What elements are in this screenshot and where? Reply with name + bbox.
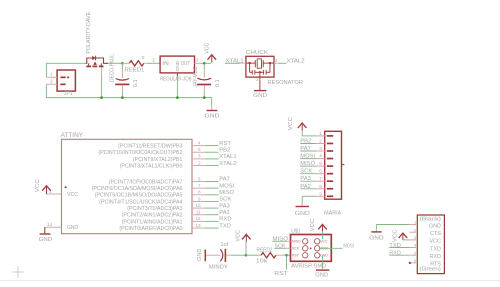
wire net MOSI (MARIA) [300, 158, 316, 160]
svg-text:6: 6 [414, 258, 417, 263]
pin ATTINY 10 (PA3) [192, 207, 205, 209]
svg-text:PB2: PB2 [300, 139, 311, 145]
svg-text:REED2: REED2 [257, 247, 273, 253]
svg-text:TXD: TXD [389, 243, 401, 249]
svg-text:VCC: VCC [310, 219, 316, 232]
svg-text:11: 11 [196, 210, 201, 215]
pin ATTINY 11 (PA2) [192, 214, 205, 216]
wire net MISO (MARIA) [300, 165, 316, 167]
wire net PB2 [205, 151, 219, 153]
svg-text:2: 2 [198, 160, 201, 165]
pin FTDI 2 (CTS) [409, 231, 417, 233]
pin AVRISP MISO [286, 240, 291, 242]
pin GND to MINDY [206, 254, 221, 256]
wire net SCK [205, 200, 219, 202]
canvas divider [0, 280, 500, 282]
svg-text:(PCINT3/T0/ADC3)PA3: (PCINT3/T0/ADC3)PA3 [127, 206, 182, 212]
wire VCC (FTDI) [403, 239, 409, 241]
svg-text:GND: GND [429, 223, 441, 229]
supply VCC (MARIA) [298, 123, 307, 128]
pin MARIA 2 [316, 143, 324, 145]
connector FTDI (Black/Green) [417, 215, 444, 274]
svg-text:AVRISP SMD: AVRISP SMD [291, 264, 326, 270]
svg-text:PA2: PA2 [300, 184, 311, 190]
wire junction to REED2 [246, 254, 259, 256]
wire XTAL1 (resonator) [225, 62, 240, 64]
pin AVRISP SCK [286, 247, 291, 249]
ground GND (MINDY, rotated) [204, 250, 206, 262]
svg-text:(Black): (Black) [419, 216, 441, 222]
svg-text:SCK: SCK [219, 197, 231, 203]
svg-text:VCC: VCC [236, 230, 242, 242]
ground GND (FTDI) [371, 231, 381, 233]
svg-text:XTAL2: XTAL2 [287, 58, 305, 64]
pin resonator 1 [240, 62, 246, 64]
pin ATTINY 1 (VCC) [46, 193, 62, 195]
svg-text:1: 1 [414, 220, 417, 225]
supply VCC (ATTINY) [42, 186, 51, 191]
pin FTDI 5 (RXD) [409, 254, 417, 256]
svg-text:TXD: TXD [430, 246, 441, 252]
pin JP1-1 [46, 76, 57, 78]
svg-text:JP1: JP1 [64, 91, 73, 97]
wire net PA7 [205, 181, 219, 183]
svg-text:RST: RST [219, 141, 231, 147]
svg-text:CTS: CTS [430, 231, 441, 237]
resistor REED1 [122, 62, 129, 64]
transistor POLARITY-DAVE (P-MOSFET) [86, 58, 109, 63]
svg-text:MOSI: MOSI [343, 244, 354, 250]
supply VCC (AVRISP) [318, 224, 327, 229]
wire VCC (AVRISP) [322, 231, 324, 239]
wire net PB2 (MARIA) [300, 143, 316, 145]
svg-text:MISO: MISO [292, 240, 301, 244]
svg-text:(PCINT8/XTAL1/CLKI)PB0: (PCINT8/XTAL1/CLKI)PB0 [120, 163, 183, 169]
regulator REGULAR-JOB U2 [160, 56, 194, 73]
svg-text:(PCINT4/T1/SCL/USCK/ADC4)PA4: (PCINT4/T1/SCL/USCK/ADC4)PA4 [99, 199, 182, 205]
wire net PA7 (MARIA) [300, 150, 316, 152]
svg-text:VCC: VCC [205, 43, 211, 54]
svg-text:4: 4 [414, 243, 417, 248]
wire RST to AVRISP [287, 254, 291, 256]
supply VCC (FTDI) [399, 233, 408, 238]
pin ATTINY 8 (MISO) [192, 194, 205, 196]
pin ATTINY 6 (PA7) [192, 181, 205, 183]
origin dot (ATTINY) [65, 186, 67, 188]
pin ATTINY 2 (XTAL2) [192, 165, 205, 167]
wire net RXD (FTDI) [389, 254, 409, 256]
supply VCC (regulator output) [208, 55, 217, 60]
svg-text:GND: GND [253, 93, 267, 99]
svg-text:2: 2 [414, 227, 417, 232]
ground GND (AVRISP) [316, 269, 329, 271]
pin FTDI 4 (TXD) [409, 247, 417, 249]
svg-text:7: 7 [319, 176, 322, 181]
svg-text:1uf: 1uf [220, 242, 228, 248]
svg-text:RXD: RXD [219, 217, 231, 223]
svg-text:3: 3 [198, 154, 201, 159]
svg-text:(PCINT6/OC1A/SDA/MOSI/ADC6)PA6: (PCINT6/OC1A/SDA/MOSI/ADC6)PA6 [92, 186, 183, 192]
ground GND (MARIA) [296, 206, 309, 208]
svg-text:2: 2 [319, 139, 322, 144]
pin FTDI 1 (GND) [409, 224, 417, 226]
svg-text:POLARITY-DAVE: POLARITY-DAVE [86, 11, 92, 53]
wire regulator OUT to VCC [200, 62, 211, 64]
resonator CHUCK [246, 56, 274, 77]
svg-text:4: 4 [198, 140, 201, 145]
pin resonator 3 [274, 62, 279, 64]
svg-text:13: 13 [195, 223, 201, 228]
capacitor DECO-PAUL [121, 62, 124, 65]
svg-text:9: 9 [198, 196, 201, 201]
pin MARIA 8 [316, 188, 324, 190]
svg-text:(PCINT11/RESET/DW)PB3: (PCINT11/RESET/DW)PB3 [118, 144, 182, 150]
svg-text:U$1: U$1 [291, 229, 301, 235]
svg-text:(PCINT2/AIN1/ADC2)PA2: (PCINT2/AIN1/ADC2)PA2 [122, 213, 183, 219]
svg-text:GND: GND [320, 254, 328, 258]
svg-text:GND: GND [197, 249, 203, 261]
wire XTAL2 (resonator) [279, 62, 287, 64]
svg-text:MINDY: MINDY [209, 265, 228, 271]
svg-text:GND: GND [67, 225, 78, 231]
svg-text:1: 1 [319, 131, 322, 136]
svg-text:JAY-VCC: JAY-VCC [193, 66, 199, 87]
svg-text:PA7: PA7 [219, 177, 230, 183]
wire REED1 to regulator IN [148, 62, 161, 64]
svg-text:2: 2 [256, 77, 259, 82]
ground GND (top circuit) [207, 110, 218, 112]
IC ATTINY [62, 139, 193, 233]
svg-text:GND: GND [175, 60, 181, 72]
svg-text:RST: RST [274, 271, 288, 277]
svg-text:VCC: VCC [67, 192, 78, 198]
svg-text:RXD: RXD [430, 254, 441, 260]
svg-text:7: 7 [198, 183, 201, 188]
wire RST drop [286, 255, 288, 270]
svg-text:VCC: VCC [35, 179, 41, 192]
svg-text:5: 5 [198, 147, 201, 152]
svg-text:14: 14 [47, 222, 53, 227]
svg-text:(PCINT0/AREF/ADC0)PA0: (PCINT0/AREF/ADC0)PA0 [119, 226, 182, 232]
svg-text:(PCINT1/AIN0/ADC1)PA1: (PCINT1/AIN0/ADC1)PA1 [122, 219, 183, 225]
svg-text:GND: GND [295, 211, 310, 217]
wire VCC (MARIA pin1) [301, 131, 303, 136]
svg-text:3: 3 [414, 235, 417, 240]
supply VCC (MINDY) [242, 234, 251, 239]
svg-text:9: 9 [319, 191, 322, 196]
svg-text:RXD: RXD [389, 251, 401, 257]
svg-text:12: 12 [195, 216, 201, 221]
header MARIA [325, 131, 342, 199]
svg-text:VCC: VCC [320, 240, 328, 244]
svg-text:DECO-PAUL: DECO-PAUL [110, 54, 116, 82]
wire GND bottom rail [46, 97, 212, 99]
svg-text:MISO: MISO [272, 237, 288, 243]
wire net XTAL1 [205, 158, 219, 160]
wire JP1 pin2 to GND rail [45, 84, 47, 98]
pin ATTINY 3 (XTAL1) [192, 158, 205, 160]
svg-text:0: 0 [142, 55, 145, 61]
svg-text:SCK: SCK [300, 169, 312, 175]
wire net MISO [205, 194, 219, 196]
svg-text:4: 4 [319, 154, 322, 159]
wire net PA3 (MARIA) [300, 180, 316, 182]
svg-text:XTAL2: XTAL2 [219, 161, 236, 167]
capacitor JAY-VCC [203, 62, 206, 65]
pin resonator GND [259, 72, 261, 90]
svg-text:MARIA: MARIA [324, 210, 341, 216]
svg-text:2: 2 [152, 57, 155, 62]
pin MARIA 6 [316, 173, 324, 175]
svg-text:GND: GND [205, 114, 220, 120]
pin ATTINY 4 (RST) [192, 145, 205, 147]
ground GND (resonator) [254, 90, 266, 92]
svg-text:RTS: RTS [430, 262, 441, 268]
pin JP1-2 [46, 83, 57, 85]
pin MARIA 7 [316, 180, 324, 182]
wire gate to GND rail [101, 67, 103, 76]
pin regulator GND [176, 73, 178, 77]
capacitor MINDY [220, 249, 222, 261]
junction regulator GND rail [176, 96, 179, 99]
svg-text:GND: GND [315, 273, 328, 279]
wire VIN top rail [46, 62, 85, 64]
svg-text:SCK: SCK [275, 244, 286, 250]
svg-text:MISO: MISO [300, 161, 315, 167]
wire GND (MARIA pin9) [302, 195, 316, 197]
svg-text:MOSI: MOSI [219, 183, 234, 189]
svg-text:0.1: 0.1 [133, 79, 139, 87]
svg-text:(PCINT5/OC1B/MISO/DO/ADC5)PA5: (PCINT5/OC1B/MISO/DO/ADC5)PA5 [95, 193, 183, 199]
ground GND (ATTINY) [44, 227, 46, 233]
wire net SCK (AVRISP) [275, 247, 286, 249]
svg-text:RESONATOR: RESONATOR [267, 80, 303, 86]
svg-text:8: 8 [198, 190, 201, 195]
svg-text:3: 3 [319, 146, 322, 151]
svg-text:6: 6 [319, 169, 322, 174]
svg-text:5: 5 [414, 250, 417, 255]
junction RST [285, 254, 288, 257]
junction gate/GND rail [100, 96, 103, 99]
wire JP1 pin1 riser [45, 63, 47, 78]
svg-text:10k: 10k [256, 259, 268, 265]
svg-text:0.1: 0.1 [215, 79, 221, 87]
wire net PA2 (MARIA) [300, 188, 316, 190]
pin ATTINY 9 (SCK) [192, 200, 205, 202]
svg-text:2: 2 [50, 79, 53, 84]
svg-text:PA7: PA7 [300, 146, 311, 152]
svg-text:6: 6 [198, 176, 201, 181]
pin ATTINY 13 (TXD) [192, 227, 205, 229]
pin MARIA 1 [316, 135, 324, 137]
svg-text:MOSI: MOSI [300, 154, 315, 160]
wire net TXD (FTDI) [389, 247, 409, 249]
header U$1 AVRISP-SMD [291, 235, 332, 262]
svg-text:XTAL1: XTAL1 [219, 154, 236, 160]
svg-text:TXD: TXD [219, 223, 231, 229]
wire net TXD [205, 227, 219, 229]
wire net MOSI (AVRISP) [319, 247, 343, 249]
wire net MOSI [205, 187, 219, 189]
pin FTDI 3 (VCC) [409, 239, 417, 241]
svg-text:10: 10 [195, 203, 201, 208]
resistor REED2 [259, 254, 262, 256]
pin MARIA 4 [316, 158, 324, 160]
svg-text:REED1: REED1 [124, 68, 144, 74]
wire net PA2 [205, 214, 219, 216]
svg-text:CHUCK: CHUCK [246, 50, 268, 56]
svg-text:8: 8 [319, 184, 322, 189]
origin cross [13, 271, 24, 273]
junction VCC (MINDY) [245, 254, 248, 257]
svg-text:(PCINT10/INT0/OC0A/CKOUT)PB2: (PCINT10/INT0/OC0A/CKOUT)PB2 [98, 150, 182, 156]
svg-text:GND: GND [369, 236, 383, 242]
svg-text:VCC: VCC [288, 117, 294, 130]
svg-text:3: 3 [275, 58, 278, 63]
pin FTDI 6 (RTS) [409, 262, 417, 264]
svg-text:5: 5 [319, 161, 322, 166]
svg-text:REGULAR-JOB: REGULAR-JOB [160, 77, 192, 83]
wire MINDY to junction [231, 254, 246, 256]
wire net MISO (AVRISP) [272, 240, 285, 242]
svg-text:OUT: OUT [181, 61, 191, 67]
svg-text:VCC: VCC [392, 229, 398, 242]
svg-text:(PCINT7/ICP/OC0B/ADC7)PA7: (PCINT7/ICP/OC0B/ADC7)PA7 [109, 179, 183, 185]
svg-text:SCK: SCK [292, 247, 300, 251]
pin ATTINY 5 (PB2) [192, 151, 205, 153]
pin MARIA 5 [316, 165, 324, 167]
wire net SCK (MARIA) [300, 173, 316, 175]
svg-text:ATTINY: ATTINY [61, 132, 83, 139]
wire net PA3 [205, 207, 219, 209]
pin regulator OUT [195, 62, 201, 64]
svg-text:PA2: PA2 [219, 210, 230, 216]
wire VCC riser (MINDY) [245, 242, 247, 255]
node RTS unconnected [409, 262, 411, 264]
svg-text:PA3: PA3 [300, 176, 311, 182]
svg-text:IN: IN [162, 61, 169, 67]
pin MARIA 3 [316, 150, 324, 152]
svg-text:(PCINT9/XTAL2)PB1: (PCINT9/XTAL2)PB1 [133, 157, 183, 163]
pin ATTINY 14 (GND) [45, 226, 62, 228]
marker pin1 arrow (AVRISP) [310, 247, 312, 249]
pin ATTINY 7 (MOSI) [192, 187, 205, 189]
svg-text:PA3: PA3 [219, 203, 230, 209]
wire net XTAL2 [205, 165, 219, 167]
pin MARIA 9 [316, 195, 324, 197]
svg-text:MISO: MISO [219, 190, 234, 196]
wire net RXD [205, 220, 219, 222]
wire regulator GND to rail [176, 77, 178, 98]
connector JP1 [57, 70, 75, 91]
svg-text:GND: GND [39, 237, 53, 243]
wire GND (AVRISP) [322, 256, 324, 267]
wire net RST [205, 145, 219, 147]
svg-text:PB2: PB2 [219, 147, 230, 153]
svg-text:VCC: VCC [430, 239, 441, 245]
svg-text:1: 1 [50, 72, 53, 77]
pin ATTINY 12 (RXD) [192, 220, 205, 222]
wire GND (FTDI) [376, 224, 409, 226]
svg-text:RST: RST [292, 254, 299, 258]
svg-text:3: 3 [196, 57, 199, 62]
